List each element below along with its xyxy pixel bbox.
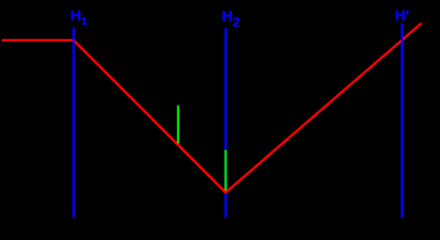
svg-text:H': H' (395, 8, 409, 25)
